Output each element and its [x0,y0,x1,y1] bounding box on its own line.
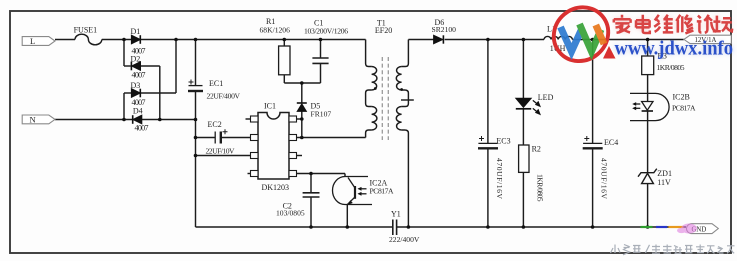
svg-text:4007: 4007 [135,124,149,133]
svg-text:R2: R2 [532,145,541,154]
svg-text:EC3: EC3 [496,137,510,146]
svg-text:D4: D4 [133,107,143,116]
svg-text:L: L [30,36,35,46]
svg-text:Y1: Y1 [391,210,401,219]
svg-text:www.jdwx.info: www.jdwx.info [615,37,734,59]
svg-text:1KR/0805: 1KR/0805 [657,63,685,72]
svg-text:D2: D2 [131,55,141,64]
svg-text:PC817A: PC817A [370,187,395,196]
svg-text:N: N [30,114,36,124]
svg-text:IC1: IC1 [264,102,276,111]
svg-text:ZD1: ZD1 [657,169,672,178]
svg-text:SR2100: SR2100 [432,25,457,34]
svg-text:4007: 4007 [132,71,146,80]
svg-text:22UF/400V: 22UF/400V [207,92,241,101]
svg-text:LED: LED [538,93,554,102]
svg-text:EC4: EC4 [604,138,618,147]
svg-text:PC817A: PC817A [672,104,696,113]
svg-text:11V: 11V [657,178,671,187]
svg-text:FR107: FR107 [311,110,332,119]
svg-text:103/200V/1206: 103/200V/1206 [304,26,348,35]
svg-text:D1: D1 [131,27,141,36]
svg-text:222/400V: 222/400V [389,235,420,244]
svg-text:470UF/16V: 470UF/16V [600,158,609,200]
svg-text:22UF/10V: 22UF/10V [206,147,236,156]
svg-text:68K/1206: 68K/1206 [260,26,291,35]
svg-text:EC1: EC1 [209,79,223,88]
svg-text:1KR/0805: 1KR/0805 [536,174,545,202]
svg-text:DK1203: DK1203 [262,183,290,192]
svg-text:IC2B: IC2B [673,93,690,102]
svg-text:D3: D3 [131,81,141,90]
svg-text:FUSE1: FUSE1 [74,26,98,35]
svg-text:EC2: EC2 [208,120,222,129]
svg-text:103/0805: 103/0805 [276,209,305,218]
svg-text:470UF/16V: 470UF/16V [495,158,504,200]
svg-text:EF20: EF20 [375,26,392,35]
